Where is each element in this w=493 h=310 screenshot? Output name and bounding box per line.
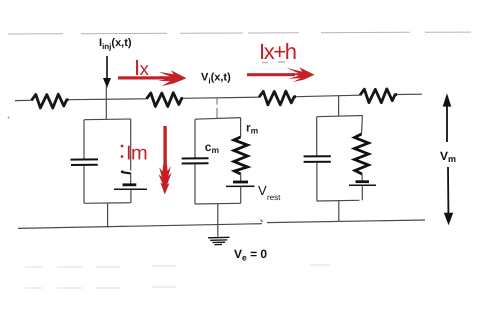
svg-text:Ix: Ix [134,55,150,80]
branch 3 left wire lower [316,163,318,202]
svg-text:Im: Im [126,143,147,165]
red arrow Ix+h [247,67,315,82]
branch 2 left wire lower [194,164,196,204]
branch 2 bottom rail [195,202,241,205]
red arrow Im (down) [159,126,172,195]
capacitor Cm3 [304,156,331,162]
resistor Ra3 (axial) [259,91,296,105]
resistor rm2 (vertical) [234,137,248,174]
branch 1 right wire upper [130,119,132,171]
battery E2 [240,174,242,181]
pen hook mark [122,172,131,174]
branch 1 left wire lower [83,166,85,203]
branch 3 bottom rail [317,199,360,202]
branch 2 top rail [195,118,241,120]
branch 1 left wire upper [83,120,85,159]
branch 2 right wire upper [240,118,242,137]
branch 3 left wire upper [316,117,318,156]
ground [208,237,230,244]
resistor rm3 (vertical) [355,134,369,174]
branch 1 top rail [84,118,131,121]
branch 2 left wire upper [194,119,196,157]
svg-text:Ix+h: Ix+h [259,39,296,64]
capacitor Cm2 [182,158,209,163]
battery E3 [361,174,363,181]
branch 3 top rail [317,116,363,117]
branch 2 stem top [216,98,218,105]
branch 2 stem bottom + ground stem [217,204,219,237]
bottom wire [18,224,262,229]
tick on bottom wire [261,220,263,223]
svg-text:Vi(x,t): Vi(x,t) [201,72,231,86]
battery E1 [130,174,132,184]
branch 1 stem top [105,86,107,120]
red arrow Ix [118,70,187,86]
capacitor Cm1 [71,159,99,165]
Vm arrow up [443,93,452,142]
svg-text:V: V [258,183,267,198]
branch 3 stem top [338,95,340,116]
faint scan artifacts [25,265,330,288]
resistor Ra4 (axial) [360,89,397,103]
Vm arrow down [444,167,453,225]
branch 3 stem bottom [338,201,340,222]
branch 1 stem bottom [107,203,109,228]
svg-text:Ve = 0: Ve = 0 [234,247,267,263]
resistor Ra2 (axial) [147,93,184,107]
branch 1 bottom rail [84,202,131,205]
dashed extracellular line [8,32,471,34]
svg-text:rest: rest [267,193,281,202]
resistor Ra1 (axial) [32,94,69,108]
faint marks under Ix+h [262,61,285,64]
top axial wire [15,94,422,100]
branch 3 right wire upper [361,116,364,135]
injection current arrow [103,56,111,88]
